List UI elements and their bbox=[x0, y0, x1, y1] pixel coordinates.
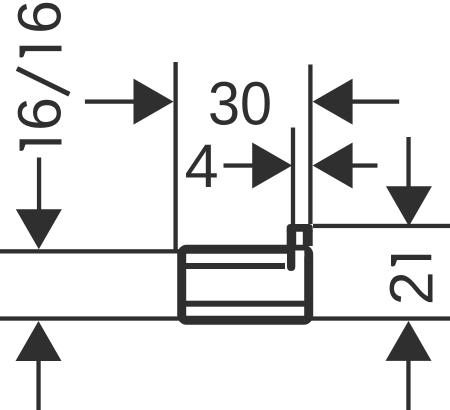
wire: stem of upper-right down arrow bbox=[406, 137, 410, 190]
wire: stem of 4 right arrow bbox=[350, 163, 378, 167]
arrowhead: down arrow at right surface line bbox=[386, 186, 432, 226]
extension line left of 4 dimension bbox=[291, 128, 295, 225]
svg-text:30: 30 bbox=[208, 70, 272, 138]
svg-text:6: 6 bbox=[6, 97, 74, 131]
svg-text:2: 2 bbox=[377, 271, 445, 305]
extension line right of 30 dimension bbox=[308, 65, 312, 225]
wire: stem of upper-left down arrow bbox=[37, 158, 41, 211]
svg-text:4: 4 bbox=[185, 132, 219, 200]
wire: stem of 4 left arrow bbox=[224, 163, 256, 167]
wire: right surface horizontal line bbox=[313, 224, 450, 228]
extension line left of 30 dimension bbox=[173, 62, 177, 253]
hook slot gap below top edge (white notch) bbox=[295, 251, 304, 257]
arrowhead: 30 dimension left-pointing arrow bbox=[313, 79, 353, 125]
hook right wall (upper part) bbox=[303, 230, 313, 246]
arrowhead: down arrow at left surface line bbox=[16, 209, 62, 249]
arrowhead: 4 dimension right-pointing arrow bbox=[252, 143, 292, 189]
profile inner shelf line (upper) bbox=[186, 263, 285, 269]
wire: bottom surface horizontal line (full width) bbox=[0, 316, 450, 320]
profile inner line (lower) bbox=[186, 301, 306, 307]
arrowhead: 4 dimension left-pointing arrow bbox=[313, 143, 353, 189]
wire: stem of 30 left arrow bbox=[85, 99, 137, 103]
profile body outline (rounded rectangle, thick stroke) bbox=[182, 249, 309, 320]
arrowhead: 30 dimension right-pointing arrow bbox=[134, 79, 174, 125]
wire: stem of lower-right up arrow bbox=[406, 358, 410, 410]
hook left wall lower tip (rounded end) bbox=[287, 250, 295, 271]
wire: left surface horizontal line bbox=[0, 249, 179, 253]
wire: stem of lower-left up arrow bbox=[36, 358, 40, 410]
hook left wall (upper part, between cap and profile top edge) bbox=[287, 230, 297, 246]
arrowhead: up arrow lower-left bbox=[16, 321, 62, 361]
dimension label 16/16 (rotated) bbox=[6, 0, 74, 151]
hook cap on top of profile bbox=[287, 224, 313, 232]
dimension label 21 (rotated) bbox=[377, 255, 445, 305]
arrowhead: up arrow lower-right bbox=[386, 321, 432, 361]
wire: stem of 30 right arrow bbox=[350, 99, 399, 103]
svg-text:6: 6 bbox=[6, 0, 74, 34]
